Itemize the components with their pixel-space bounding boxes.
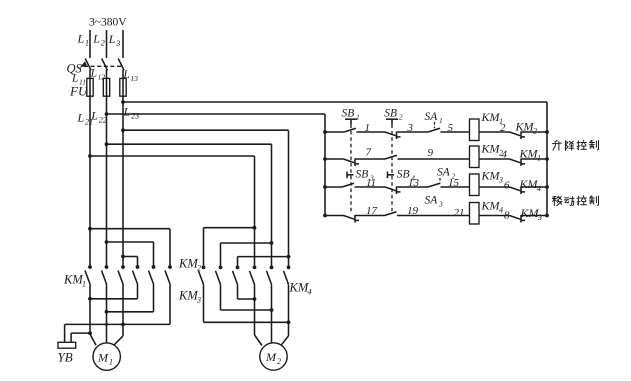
svg-text:13: 13 bbox=[408, 177, 420, 189]
svg-text:KM: KM bbox=[481, 110, 501, 124]
svg-text:1: 1 bbox=[82, 280, 86, 289]
svg-text:2: 2 bbox=[101, 39, 105, 48]
svg-text:11: 11 bbox=[366, 177, 376, 189]
svg-text:3: 3 bbox=[115, 39, 120, 48]
svg-text:KM: KM bbox=[515, 120, 535, 134]
svg-text:15: 15 bbox=[448, 177, 460, 189]
svg-text:SB: SB bbox=[342, 108, 355, 120]
svg-text:L: L bbox=[77, 111, 85, 125]
svg-text:4: 4 bbox=[502, 149, 508, 161]
svg-text:5: 5 bbox=[448, 122, 454, 134]
svg-text:3: 3 bbox=[407, 122, 414, 134]
svg-text:13: 13 bbox=[130, 74, 138, 83]
svg-text:SA: SA bbox=[425, 111, 439, 123]
svg-text:21: 21 bbox=[454, 207, 465, 219]
svg-text:2: 2 bbox=[533, 127, 537, 136]
svg-text:19: 19 bbox=[407, 205, 419, 217]
svg-text:2: 2 bbox=[500, 122, 506, 134]
svg-text:1: 1 bbox=[537, 154, 541, 163]
svg-text:YB: YB bbox=[58, 350, 73, 365]
svg-text:KM: KM bbox=[178, 289, 198, 303]
svg-text:KM: KM bbox=[481, 199, 501, 213]
svg-text:7: 7 bbox=[366, 147, 372, 159]
svg-text:3: 3 bbox=[498, 176, 503, 185]
svg-text:2: 2 bbox=[197, 264, 201, 273]
svg-text:1: 1 bbox=[356, 113, 360, 122]
svg-text:23: 23 bbox=[131, 112, 139, 121]
svg-text:L: L bbox=[90, 68, 97, 80]
svg-text:1: 1 bbox=[439, 116, 443, 125]
svg-text:KM: KM bbox=[481, 142, 501, 156]
svg-text:L: L bbox=[90, 109, 98, 123]
svg-text:M: M bbox=[265, 350, 277, 364]
svg-text:4: 4 bbox=[537, 184, 541, 193]
svg-text:FU: FU bbox=[69, 84, 89, 99]
svg-text:8: 8 bbox=[504, 210, 510, 222]
svg-text:9: 9 bbox=[428, 147, 434, 159]
svg-text:4: 4 bbox=[499, 206, 503, 215]
svg-text:SB: SB bbox=[384, 108, 397, 120]
svg-text:3: 3 bbox=[438, 200, 443, 209]
svg-text:17: 17 bbox=[366, 205, 378, 217]
svg-text:22: 22 bbox=[99, 116, 107, 125]
svg-text:2: 2 bbox=[399, 113, 403, 122]
svg-text:KM: KM bbox=[178, 257, 198, 271]
svg-text:3~380V: 3~380V bbox=[89, 17, 127, 29]
svg-text:SA: SA bbox=[425, 195, 439, 207]
svg-text:KM: KM bbox=[519, 177, 539, 191]
svg-text:3: 3 bbox=[537, 213, 542, 222]
svg-text:L: L bbox=[92, 32, 100, 46]
svg-text:3: 3 bbox=[196, 296, 201, 305]
svg-text:KM: KM bbox=[519, 147, 539, 161]
svg-text:L: L bbox=[123, 105, 131, 119]
svg-text:KM: KM bbox=[520, 206, 540, 220]
svg-text:4: 4 bbox=[308, 288, 312, 297]
svg-text:KM: KM bbox=[289, 281, 309, 295]
svg-text:M: M bbox=[97, 351, 109, 365]
svg-text:L: L bbox=[108, 32, 116, 46]
svg-text:1: 1 bbox=[109, 358, 113, 367]
svg-text:KM: KM bbox=[481, 169, 501, 183]
svg-text:KM: KM bbox=[63, 273, 83, 287]
svg-text:1: 1 bbox=[365, 122, 371, 134]
svg-text:6: 6 bbox=[504, 180, 510, 192]
svg-text:L: L bbox=[77, 32, 85, 46]
svg-text:1: 1 bbox=[85, 39, 89, 48]
svg-text:2: 2 bbox=[277, 357, 281, 366]
